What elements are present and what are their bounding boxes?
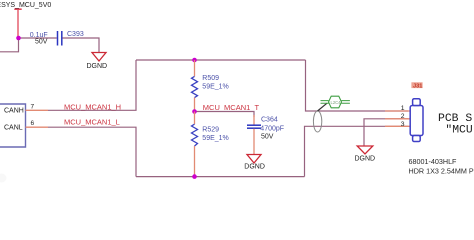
junction top rail / R509 bbox=[192, 58, 197, 63]
svg-text:PCB S: PCB S bbox=[438, 113, 472, 125]
svg-text:R509: R509 bbox=[202, 75, 219, 82]
ground DGND 2 bbox=[244, 155, 265, 171]
svg-text:59E_1%: 59E_1% bbox=[202, 84, 228, 91]
wire C393 to ground corner bbox=[63, 38, 100, 52]
top rail wire bbox=[136, 59, 306, 61]
svg-text:1: 1 bbox=[401, 105, 405, 112]
svg-text:CANH: CANH bbox=[4, 108, 24, 115]
pin 6 stub bbox=[26, 126, 49, 128]
junction node at power/cap bbox=[16, 36, 21, 41]
svg-text:J31: J31 bbox=[413, 84, 422, 90]
capacitor C364 bbox=[247, 115, 284, 154]
svg-text:3: 3 bbox=[401, 121, 405, 128]
pin 7 stub bbox=[26, 109, 49, 111]
svg-text:ESYS_MCU_5V0: ESYS_MCU_5V0 bbox=[0, 2, 51, 9]
junction bottom rail / R529 bbox=[192, 174, 197, 179]
svg-text:C364: C364 bbox=[261, 117, 278, 124]
svg-text:50V: 50V bbox=[261, 133, 274, 140]
svg-text:"MCU: "MCU bbox=[445, 125, 473, 137]
cable symbol (green) bbox=[321, 96, 350, 108]
capacitor C393 bbox=[58, 31, 62, 46]
svg-text:59E_1%: 59E_1% bbox=[202, 135, 228, 142]
wire down-left exit bbox=[0, 38, 19, 52]
svg-text:6: 6 bbox=[31, 120, 35, 127]
svg-text:4700pF: 4700pF bbox=[260, 125, 284, 132]
wire top rail down to pin1 row bbox=[306, 60, 409, 111]
cable leader line bbox=[318, 103, 328, 111]
svg-text:7: 7 bbox=[31, 104, 35, 111]
svg-text:DGND: DGND bbox=[87, 63, 108, 70]
svg-text:MCU_MCAN1_L: MCU_MCAN1_L bbox=[64, 117, 120, 126]
ground DGND 1 bbox=[87, 53, 108, 71]
power symbol SYS_MCU_5V0 bbox=[0, 2, 51, 38]
wire MCU_MCAN1_H bbox=[48, 60, 136, 110]
wire pin2 to ground bbox=[364, 119, 408, 146]
svg-text:MCU_MCAN1_T: MCU_MCAN1_T bbox=[203, 103, 260, 112]
ground DGND 3 bbox=[355, 146, 376, 163]
bottom rail wire bbox=[136, 176, 305, 178]
smudge artifact bottom-left bbox=[0, 174, 7, 183]
svg-text:DGND: DGND bbox=[355, 156, 376, 163]
svg-text:HDR 1X3 2.54MM PITCH: HDR 1X3 2.54MM PITCH bbox=[409, 166, 474, 175]
twisted pair ellipse bbox=[313, 111, 321, 132]
svg-text:L2C4: L2C4 bbox=[331, 100, 342, 105]
svg-text:2: 2 bbox=[401, 113, 405, 120]
wire power junction to C393 bbox=[18, 37, 57, 39]
resistor R509 bbox=[192, 60, 229, 112]
svg-text:CANL: CANL bbox=[4, 125, 23, 132]
svg-text:C393: C393 bbox=[67, 31, 84, 38]
connector J31 pin stubs bbox=[385, 110, 410, 112]
junction center tap bbox=[192, 109, 197, 114]
svg-text:DGND: DGND bbox=[244, 164, 265, 171]
wire center tap to C364 bbox=[195, 112, 255, 118]
svg-text:68001-403HLF: 68001-403HLF bbox=[409, 157, 458, 166]
resistor R529 bbox=[192, 112, 229, 177]
refdes J31 highlight box bbox=[411, 82, 422, 89]
connector J31 body bbox=[410, 99, 423, 142]
wire bottom rail up to pin3 row bbox=[305, 126, 409, 176]
wire MCU_MCAN1_L bbox=[48, 127, 136, 176]
IC box (CAN transceiver, partial) bbox=[0, 104, 26, 147]
svg-text:R529: R529 bbox=[202, 127, 219, 134]
svg-text:50V: 50V bbox=[35, 38, 48, 45]
